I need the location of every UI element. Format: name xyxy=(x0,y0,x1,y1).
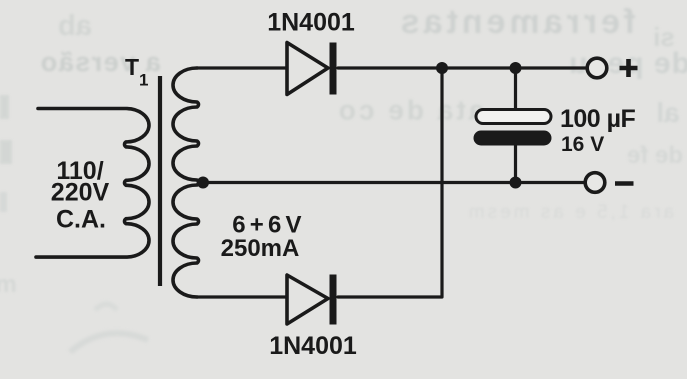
wire: top rail from D1 to + terminal xyxy=(338,66,586,69)
output terminal - xyxy=(585,173,605,193)
diode D2 cathode bar xyxy=(330,275,337,325)
wire: top rail from secondary to diode D1 xyxy=(197,66,286,69)
wire: from D2 up to top rail xyxy=(338,68,442,297)
background bleed-through text row 3 "de co" (mirrored) xyxy=(336,95,484,126)
background bleed-through bottom-left smudge xyxy=(70,304,148,352)
output terminal + xyxy=(587,58,607,78)
wire: capacitor bottom lead xyxy=(514,145,517,183)
label T1 xyxy=(125,54,148,90)
background bleed-through text row 2 left "versão" (mirrored) xyxy=(39,47,161,77)
background bleed-through top-right corner fragment xyxy=(653,22,675,52)
svg-text:1: 1 xyxy=(139,71,148,90)
svg-text:ata de co: ata de co xyxy=(336,95,484,126)
svg-text:ara 1,5 e as mesm: ara 1,5 e as mesm xyxy=(466,202,674,223)
svg-text:250mA: 250mA xyxy=(221,235,300,262)
background bleed-through text row 1 left fragment xyxy=(58,10,92,42)
svg-text:si: si xyxy=(653,22,675,52)
svg-text:1N4001: 1N4001 xyxy=(267,9,355,37)
wire: capacitor top lead xyxy=(514,68,517,110)
svg-text:ferramentas: ferramentas xyxy=(397,3,636,41)
capacitor C1 bottom plate xyxy=(474,131,552,146)
junction dot on middle rail at capacitor xyxy=(510,177,522,189)
background bleed-through text row 2 right "pequ" (mirrored) xyxy=(568,47,687,80)
svg-text:T: T xyxy=(125,54,139,80)
junction dot on top rail at capacitor xyxy=(510,62,522,74)
background bleed-through text row 1 "ferramentas" (mirrored) xyxy=(397,3,636,41)
label 6+6V 250mA xyxy=(221,212,306,263)
plus sign xyxy=(620,59,638,77)
wire: center-tap middle rail to - terminal xyxy=(201,181,584,184)
svg-text:C.A.: C.A. xyxy=(56,206,106,234)
junction dot on top rail at D2 branch xyxy=(436,62,448,74)
label 100uF 16V xyxy=(560,105,636,156)
svg-text:100 µF: 100 µF xyxy=(560,105,636,133)
transformer T1 core xyxy=(158,76,162,286)
minus sign xyxy=(615,181,634,186)
svg-text:16 V: 16 V xyxy=(561,133,604,156)
background bleed-through left edge marks xyxy=(0,95,17,298)
transformer T1 secondary winding xyxy=(173,68,199,297)
svg-text:1N4001: 1N4001 xyxy=(269,332,357,360)
background bleed-through faint row 5 (mirrored) xyxy=(466,202,674,223)
label 110/220V C.A. xyxy=(51,157,110,234)
svg-text:ab: ab xyxy=(58,10,92,42)
diode D2 1N4001 triangle xyxy=(287,275,328,324)
junction dot transformer center tap xyxy=(197,177,209,189)
capacitor C1 top plate xyxy=(476,110,551,124)
diode D1 cathode bar xyxy=(330,43,337,95)
svg-text:220V: 220V xyxy=(51,179,110,207)
background bleed-through text row 3 right edge xyxy=(656,97,679,128)
svg-text:sm: sm xyxy=(0,271,17,298)
wire: bottom from secondary to diode D2 xyxy=(197,295,286,298)
diode D1 1N4001 triangle xyxy=(287,43,328,95)
transformer T1 primary winding with input wires xyxy=(36,109,149,258)
svg-text:de fe: de fe xyxy=(627,142,683,169)
svg-text:al: al xyxy=(656,97,679,128)
background bleed-through text row 4 right "fenda" (mirrored) xyxy=(627,142,683,169)
